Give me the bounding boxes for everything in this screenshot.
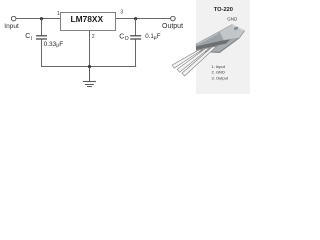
svg-text:1. Input: 1. Input [212, 64, 226, 69]
wire pin 3 to output [116, 18, 170, 20]
wire input to pin 1 [17, 18, 61, 20]
svg-text:TO-220: TO-220 [214, 7, 233, 13]
svg-text:2. GND: 2. GND [212, 70, 225, 75]
svg-text:0.33µF: 0.33µF [44, 41, 64, 49]
node input / CI junction [40, 17, 43, 20]
package front face band [196, 38, 232, 50]
package lead pin 3 [182, 46, 217, 76]
tab mounting hole [233, 26, 238, 30]
svg-text:3. Output: 3. Output [212, 76, 229, 81]
body highlight streak [198, 33, 220, 45]
node ground bus junction [88, 65, 91, 68]
package tab [219, 24, 244, 40]
terminal Input [11, 16, 16, 21]
background left (schematic area) [0, 0, 250, 94]
svg-text:Input: Input [4, 23, 19, 30]
wire ground bus [41, 66, 136, 68]
TO-220 package illustration [172, 24, 244, 76]
svg-text:1: 1 [57, 11, 60, 17]
node output / CO junction [134, 17, 137, 20]
capacitor CO [130, 35, 141, 37]
wire CO lower lead [135, 39, 137, 67]
svg-text:2: 2 [92, 34, 95, 40]
terminal Output [171, 16, 176, 21]
svg-text:LM78XX: LM78XX [71, 14, 104, 24]
background right gray panel [196, 0, 250, 94]
wire pin 2 to ground bus [89, 31, 91, 67]
ground [83, 67, 96, 87]
package lead pin 2 [177, 48, 210, 73]
capacitor CI [36, 35, 47, 37]
wire CI lower lead [41, 39, 43, 67]
svg-text:Output: Output [162, 23, 183, 30]
package body top face [196, 32, 224, 47]
svg-text:GND: GND [227, 17, 238, 22]
tab highlight edge [232, 25, 244, 31]
regulator U1 LM78XX [61, 13, 116, 31]
package body silhouette [196, 24, 245, 52]
wire CO upper lead [135, 19, 137, 36]
svg-text:3: 3 [120, 10, 123, 16]
wire CI upper lead [41, 19, 43, 36]
svg-text:0.1µF: 0.1µF [145, 33, 161, 41]
package lead pin 1 [172, 49, 203, 68]
bottom rim shading [197, 31, 245, 53]
